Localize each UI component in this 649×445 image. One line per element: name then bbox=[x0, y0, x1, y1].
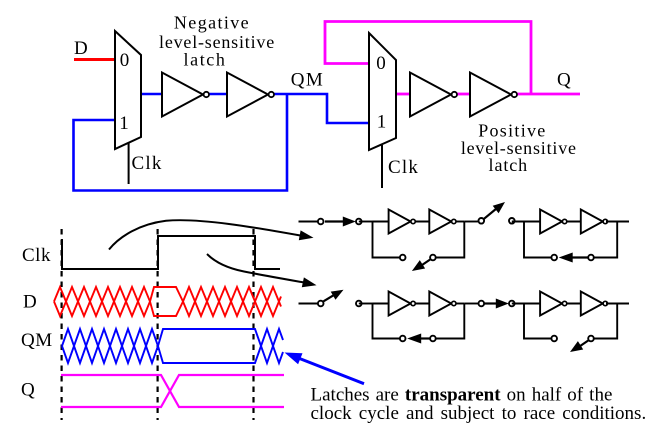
curved arrow to transparent-master circuit bbox=[109, 220, 314, 249]
curved arrow to opaque-master circuit bbox=[207, 254, 317, 287]
wire switch to cell A bbox=[359, 221, 373, 223]
wire input to cell A bbox=[299, 221, 323, 223]
switch C-D (closed) bbox=[479, 299, 515, 309]
svg-text:QM: QM bbox=[291, 70, 325, 91]
inverter I4 bbox=[470, 73, 517, 117]
svg-text:Clk: Clk bbox=[388, 157, 419, 178]
inverter 2 of cell A bbox=[429, 210, 451, 234]
switch A-B (open) bbox=[479, 202, 515, 224]
wire feedback loop right of cell C bbox=[433, 304, 464, 339]
switch feedback cell A (open arm with arrow) bbox=[400, 255, 436, 271]
wire feedback loop left of cell D bbox=[524, 304, 554, 339]
svg-text:D: D bbox=[23, 292, 37, 313]
wire cell C output bbox=[464, 303, 478, 305]
svg-text:clock cycle and subject to rac: clock cycle and subject to race conditio… bbox=[311, 403, 647, 424]
dashed timeline t3 bbox=[252, 229, 254, 420]
wire latch1 feedback loop (QM down, bottom, up to input 1) bbox=[74, 94, 288, 191]
wire into cell D bbox=[512, 303, 539, 305]
inverter 1 of cell D bbox=[540, 292, 562, 316]
label: Positive level-sensitive latch bbox=[461, 121, 577, 176]
dashed timeline t1 bbox=[60, 229, 62, 420]
latch cell D (feedback open) bbox=[524, 292, 617, 353]
waveform Clk bbox=[62, 236, 280, 270]
svg-text:Clk: Clk bbox=[132, 153, 163, 174]
switch feedback cell B (closed, arrow left) bbox=[551, 253, 593, 263]
wire segments main line cell A bbox=[373, 221, 389, 223]
label: Negative level-sensitive latch bbox=[159, 13, 275, 70]
svg-text:latch: latch bbox=[489, 155, 528, 175]
inverter 1 of cell B bbox=[540, 210, 562, 234]
caption: Latches are transparent ... bbox=[311, 385, 647, 425]
wire feedback loop left of cell B bbox=[524, 222, 554, 258]
wire mux2 output bbox=[396, 93, 411, 96]
wire input to cell C bbox=[299, 303, 323, 305]
wire inv1 to inv2 bbox=[208, 93, 228, 96]
inverter 2 of cell C bbox=[429, 292, 451, 316]
svg-text:Q: Q bbox=[21, 380, 35, 401]
latch cell A (feedback open) bbox=[373, 210, 465, 272]
switch feedback cell D (open arm with arrow) bbox=[551, 336, 593, 352]
wire cell B output bbox=[606, 221, 629, 223]
wire cell A output bbox=[464, 221, 478, 223]
switch A input (closed) bbox=[318, 217, 362, 227]
waveform QM (blue hatch) bbox=[62, 329, 283, 363]
switch C input (open) bbox=[318, 290, 362, 307]
wire segments main line cell D bbox=[524, 303, 540, 305]
wire segments main line cell B bbox=[524, 221, 540, 223]
inverter 2 of cell B bbox=[581, 210, 603, 234]
inverter 1 of cell A bbox=[389, 210, 411, 234]
wire Clk1 bbox=[128, 143, 130, 184]
latch cell B (feedback closed) bbox=[524, 210, 617, 263]
wire latch2 feedback (Q up, top, down to input 0) bbox=[325, 22, 531, 95]
wire D input bbox=[74, 58, 116, 61]
wire feedback loop right of cell D bbox=[591, 304, 617, 339]
inverter I3 bbox=[410, 73, 457, 117]
dashed timeline t2 bbox=[157, 229, 159, 420]
wire QM node to mux2 input 1 bbox=[273, 94, 369, 123]
wire feedback loop left of cell C bbox=[373, 304, 403, 339]
mux U1 bbox=[115, 31, 141, 149]
inverter 1 of cell C bbox=[389, 292, 411, 316]
switch feedback cell C (closed, arrow left) bbox=[400, 334, 436, 344]
wire Clk2 bbox=[381, 145, 383, 188]
svg-text:D: D bbox=[74, 38, 88, 59]
waveform D (red hatch) bbox=[54, 287, 281, 316]
svg-text:Negative: Negative bbox=[174, 13, 250, 33]
waveform Q (magenta) bbox=[61, 375, 284, 407]
wire feedback loop left of cell A bbox=[373, 222, 403, 258]
inverter I2 bbox=[227, 73, 274, 117]
svg-text:QM: QM bbox=[21, 330, 53, 351]
latch cell C (feedback closed) bbox=[373, 292, 465, 344]
blue arrow pointing at QM race hatch bbox=[285, 353, 365, 384]
svg-text:1: 1 bbox=[377, 112, 387, 133]
svg-text:0: 0 bbox=[120, 50, 130, 71]
svg-text:Q: Q bbox=[557, 70, 571, 91]
svg-text:Clk: Clk bbox=[22, 245, 51, 266]
wire segments main line cell C bbox=[373, 303, 389, 305]
wire Q output bbox=[515, 93, 580, 96]
inverter 2 of cell D bbox=[581, 292, 603, 316]
wire cell D output bbox=[606, 303, 629, 305]
wire feedback loop right of cell B bbox=[591, 222, 617, 258]
svg-text:latch: latch bbox=[184, 50, 227, 70]
inverter I1 bbox=[162, 73, 209, 117]
svg-text:1: 1 bbox=[119, 113, 129, 134]
wire feedback loop right of cell A bbox=[433, 222, 464, 258]
wire into cell B bbox=[512, 221, 539, 223]
mux U2 bbox=[369, 33, 396, 150]
svg-text:0: 0 bbox=[376, 53, 386, 74]
wire switch to cell C bbox=[359, 303, 373, 305]
wire inv3 to inv4 bbox=[456, 93, 470, 96]
wire mux1 output bbox=[141, 93, 163, 96]
